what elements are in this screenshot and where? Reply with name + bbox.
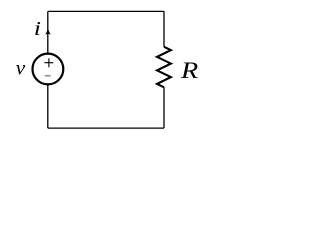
voltage source v bbox=[33, 54, 64, 85]
svg-text:R: R bbox=[180, 58, 199, 84]
wire right upper bbox=[163, 11, 165, 46]
current arrow i bbox=[45, 27, 51, 34]
svg-text:v: v bbox=[16, 58, 26, 80]
minus sign bbox=[45, 75, 51, 77]
wire left lower bbox=[47, 85, 49, 129]
resistor R bbox=[157, 47, 171, 88]
wire bottom bbox=[48, 127, 164, 129]
svg-text:i: i bbox=[34, 19, 41, 40]
wire right lower bbox=[163, 87, 165, 128]
wire left upper bbox=[47, 11, 49, 53]
wire top bbox=[48, 10, 164, 12]
plus sign bbox=[44, 58, 53, 67]
